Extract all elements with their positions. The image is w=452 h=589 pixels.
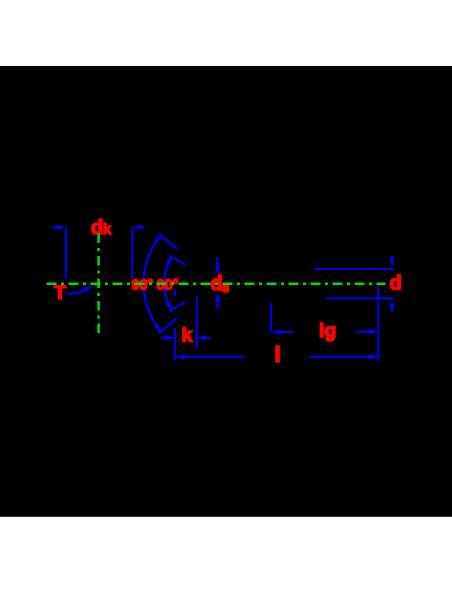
dimension d: lower extension line (326, 297, 394, 299)
svg-text:60°: 60° (157, 277, 179, 293)
dimension k: left arrow (161, 337, 167, 339)
dimension lg: right line with arrow (357, 331, 372, 333)
angle 60deg: top cone-edge tick (169, 256, 186, 266)
dimension ds: lower arrow (216, 301, 218, 310)
dimension dk: left arrow (53, 226, 59, 228)
vertical centerline (head front view) (97, 234, 100, 336)
svg-text:lg: lg (319, 320, 336, 342)
dimension dk: left extension line (65, 227, 67, 278)
dimension l: right line with arrow (309, 356, 372, 358)
angle 60deg: bottom arrowhead (165, 302, 171, 310)
svg-text:k: k (103, 222, 112, 238)
angle 90deg: top arrowhead (154, 235, 161, 243)
dimension lg: left extension line (270, 303, 272, 332)
svg-text:s: s (222, 279, 230, 295)
dimension d: upper extension line (314, 268, 394, 270)
dimension d: lower arrow (391, 308, 393, 312)
svg-text:T: T (54, 282, 66, 304)
svg-text:90°: 90° (132, 277, 154, 293)
dimension lg: left line with arrow (278, 331, 294, 333)
dimension dk: right arrow (140, 226, 145, 228)
angle 90deg: dimension arc (143, 235, 161, 331)
angle 60deg: bottom cone-edge tick (169, 302, 186, 312)
svg-text:d: d (390, 273, 402, 295)
horizontal centerline (screw axis) (47, 283, 386, 286)
angle 90deg: bottom cone-edge tick (159, 318, 177, 334)
dimension k: right arrow (205, 337, 211, 339)
angle 60deg: dimension arc (164, 257, 171, 310)
dimension l / lg: right extension line (screw end) (377, 285, 379, 362)
dimension dk: right extension line (131, 227, 133, 278)
dimension k: left extension line lower part (174, 328, 176, 361)
svg-text:k: k (182, 325, 193, 347)
dimension k: left extension line upper part (174, 290, 176, 297)
black drawing panel (0, 66, 452, 517)
angle 90deg: top cone-edge tick (159, 234, 177, 250)
dimension k: right extension line (196, 296, 198, 348)
dimension l: left line with arrow (181, 356, 245, 358)
dimension ds: upper arrow (216, 258, 218, 267)
svg-text:l: l (275, 342, 281, 367)
angle 90deg: bottom arrowhead (154, 324, 161, 332)
label T leader line with arrow (68, 287, 92, 294)
dimension d: upper arrow (391, 256, 393, 260)
angle 60deg: top arrowhead (165, 257, 171, 265)
svg-text:d: d (91, 217, 103, 239)
